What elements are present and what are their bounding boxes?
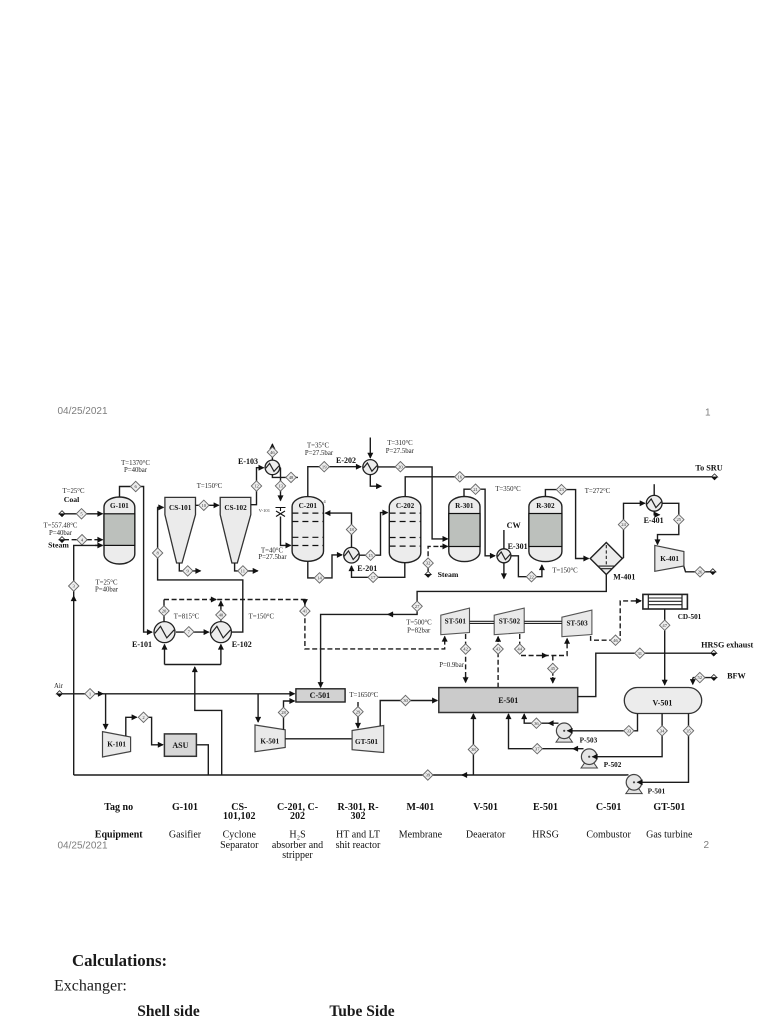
stream tag 37: [532, 744, 542, 754]
wire steam to G-101: [64, 539, 103, 541]
wire CW into E-301: [503, 530, 505, 549]
stream tag 7: [184, 627, 194, 637]
svg-text:47: 47: [662, 623, 667, 628]
stream tag 16: [455, 472, 465, 482]
svg-text:Deaerator: Deaerator: [466, 830, 506, 841]
svg-text:ST-502: ST-502: [499, 618, 521, 626]
svg-text:E-101: E-101: [132, 640, 152, 649]
wire steam arrow into R-301: [440, 545, 448, 547]
svg-text:39: 39: [426, 773, 431, 778]
wire E-202 bottom stub: [370, 475, 381, 487]
svg-text:2: 2: [704, 840, 710, 851]
H2 product terminal dot: [710, 569, 716, 575]
stream tag 5: [76, 509, 86, 519]
svg-text:P=82bar: P=82bar: [407, 628, 431, 635]
wire P-503 discharge arrow: [549, 722, 554, 724]
wire CS-102 to E-103: [251, 468, 264, 505]
wire CS-102 bottoms: [235, 563, 258, 571]
svg-text:44: 44: [517, 647, 522, 652]
wire E-102 to CS-101: [158, 507, 243, 632]
svg-text:T=350°C: T=350°C: [495, 486, 521, 493]
wire air to K-101: [105, 694, 107, 729]
wire P-502 discharge arrow: [573, 748, 578, 750]
svg-text:18: 18: [349, 527, 354, 532]
wire V-501 to P-502: [593, 714, 663, 757]
svg-text:E-202: E-202: [336, 456, 356, 465]
svg-text:15: 15: [368, 553, 373, 558]
svg-text:T=150°C: T=150°C: [552, 567, 578, 574]
svg-text:E-401: E-401: [644, 516, 664, 525]
wire BFW line: [693, 677, 711, 679]
svg-text:Air: Air: [54, 683, 64, 690]
wire ST-501 inlet arrow: [444, 637, 446, 643]
svg-text:37: 37: [535, 746, 540, 751]
wire K-501 to GT-501: [285, 738, 352, 740]
svg-text:P=40bar: P=40bar: [95, 587, 119, 594]
cyclone separator CS-102: [220, 497, 251, 563]
wire K-401 outlet: [684, 567, 710, 572]
heat exchanger E-102: [210, 622, 231, 643]
wire water main: [74, 774, 626, 776]
stream tag 17: [368, 572, 378, 582]
svg-text:BFW: BFW: [727, 672, 746, 681]
svg-text:25: 25: [677, 517, 682, 522]
svg-text:E-201: E-201: [357, 564, 377, 573]
pump P-503: [556, 723, 572, 742]
svg-text:C-501: C-501: [310, 691, 330, 700]
wire ST-501 exhaust to E-501: [465, 634, 467, 682]
svg-text:To SRU: To SRU: [695, 464, 722, 473]
wire E-501 flue to HRSG exhaust: [578, 653, 711, 696]
wire water to E-101: [164, 645, 166, 665]
stream tag 45: [548, 663, 558, 673]
gasifier G-101: [104, 497, 135, 564]
wire V-501 to P-503: [568, 714, 638, 731]
svg-text:T=150°C: T=150°C: [197, 483, 223, 490]
svg-text:P=27.5bar: P=27.5bar: [305, 450, 334, 457]
pump P-501: [626, 775, 642, 794]
stream tag 29: [353, 707, 363, 717]
stream tag 24: [618, 519, 628, 529]
svg-text:42: 42: [463, 647, 468, 652]
svg-text:28: 28: [281, 710, 286, 715]
wire ST-502 exhaust to E-501 branch: [552, 656, 554, 683]
stream tag 52: [695, 672, 705, 682]
stream tag 41: [300, 606, 310, 616]
svg-text:34: 34: [660, 728, 665, 733]
heat exchanger E-201: [344, 547, 360, 563]
stream tag 11: [238, 566, 248, 576]
stream tag 34: [657, 726, 667, 736]
svg-text:T=500°C: T=500°C: [406, 619, 432, 626]
svg-text:P=27.5bar: P=27.5bar: [386, 448, 415, 455]
wire coal to G-101: [64, 513, 103, 515]
svg-text:33: 33: [627, 728, 632, 733]
wire R-302 to M-401: [545, 490, 588, 559]
svg-text:E-501: E-501: [533, 802, 558, 813]
wire E-201 to C-202 feed: [359, 513, 387, 556]
stream tag 13: [275, 481, 285, 491]
svg-text:V-501: V-501: [652, 699, 672, 708]
svg-text:Tag no: Tag no: [104, 802, 133, 813]
svg-text:CD-501: CD-501: [678, 613, 702, 621]
steam source dot 2: [425, 571, 431, 577]
wire CW out of E-301: [503, 563, 505, 579]
svg-text:22: 22: [529, 574, 534, 579]
wire E-501 to ST-502: [497, 638, 499, 688]
equipment table row 1: [104, 802, 685, 822]
wire GT-501 exhaust to E-501: [380, 701, 437, 727]
svg-text:24: 24: [621, 522, 626, 527]
svg-text:C-501: C-501: [596, 802, 622, 813]
svg-text:T=310°C: T=310°C: [387, 440, 413, 447]
svg-text:Tube Side: Tube Side: [329, 1003, 394, 1020]
wire E-202 to R-301: [378, 467, 448, 539]
stream tag 20: [159, 606, 169, 616]
svg-text:23: 23: [559, 487, 564, 492]
svg-text:C-202: C-202: [396, 502, 415, 510]
svg-text:P=40bar: P=40bar: [49, 530, 73, 537]
svg-text:ST-501: ST-501: [445, 618, 467, 626]
svg-text:P-501: P-501: [648, 788, 666, 796]
wire air to K-501: [257, 694, 259, 722]
stream tag 8: [152, 548, 162, 558]
stream tag 48: [286, 472, 296, 482]
wire header down arrow: [304, 600, 306, 605]
svg-text:K-101: K-101: [107, 741, 126, 749]
svg-text:P=27.5bar: P=27.5bar: [258, 554, 287, 561]
svg-text:M-401: M-401: [613, 573, 635, 582]
stream tag 36: [531, 718, 541, 728]
svg-text:T=815°C: T=815°C: [174, 614, 200, 621]
BFW terminal dot: [711, 675, 717, 681]
svg-text:45: 45: [551, 666, 556, 671]
svg-text:T=25°C: T=25°C: [95, 580, 117, 587]
wire water supply riser: [195, 667, 222, 775]
wire ST-503 exhaust to CD-501: [591, 601, 641, 640]
stream tag 19: [319, 462, 329, 472]
stream tag 23: [556, 484, 566, 494]
stream tag 42: [460, 644, 470, 654]
svg-text:Exchanger:: Exchanger:: [54, 978, 127, 995]
svg-text:G-101: G-101: [172, 802, 198, 813]
coal source dot: [59, 511, 65, 517]
stream tag 6: [131, 481, 141, 491]
compressor K-401: [655, 545, 684, 571]
wire E-101/E-102 water header: [165, 664, 221, 666]
svg-text:04/25/2021: 04/25/2021: [58, 406, 108, 417]
svg-text:Membrane: Membrane: [399, 830, 443, 841]
wire E-103 stub: [272, 475, 298, 478]
svg-text:V-101: V-101: [259, 508, 271, 513]
svg-text:T=557.48°C: T=557.48°C: [44, 523, 78, 530]
svg-text:11: 11: [241, 569, 246, 574]
wire V-101 to C-201: [281, 517, 291, 546]
stream tag 15: [365, 550, 375, 560]
svg-text:E-301: E-301: [508, 542, 528, 551]
equipment table row 2: [95, 830, 693, 862]
wire E-401 top stub: [653, 484, 655, 495]
heat exchanger E-301: [497, 549, 511, 563]
stream tag 27: [412, 601, 422, 611]
wire E-103 CW out top: [271, 444, 273, 460]
wire ST-501 exhaust arrow: [465, 676, 467, 682]
stream tag 26: [695, 567, 705, 577]
wire ST-502 inlet arrow: [497, 637, 499, 642]
svg-text:E-102: E-102: [232, 640, 252, 649]
valve V-101: [276, 508, 286, 517]
wire CD-501 to V-501 arrow: [664, 679, 666, 685]
wire steam to R-301: [428, 546, 446, 571]
heat exchanger E-103: [265, 460, 280, 475]
svg-text:HRSG exhaust: HRSG exhaust: [701, 641, 753, 650]
wire water to E-102: [220, 645, 222, 665]
wire T310 feed into E-202: [369, 438, 371, 458]
svg-text:40: 40: [219, 613, 224, 618]
svg-text:04/25/2021: 04/25/2021: [58, 841, 108, 852]
stream tag 30: [400, 695, 410, 705]
wire CD-501 to V-501: [664, 609, 666, 685]
combustor C-501: [296, 689, 345, 702]
svg-text:shit reactor: shit reactor: [336, 840, 381, 851]
svg-text:Coal: Coal: [64, 495, 80, 504]
stream tag 44: [515, 644, 525, 654]
wire C-201 bottoms to E-201: [308, 555, 342, 578]
svg-text:43: 43: [496, 647, 501, 652]
svg-text:Separator: Separator: [220, 840, 259, 851]
svg-text:GT-501: GT-501: [653, 802, 685, 813]
cyclone separator CS-101: [165, 497, 196, 563]
svg-text:36: 36: [534, 721, 539, 726]
stream tag 39: [423, 770, 433, 780]
svg-text:52: 52: [698, 675, 703, 680]
stream tag 28: [278, 707, 288, 717]
svg-text:Shell side: Shell side: [137, 1003, 200, 1020]
air separation unit ASU: [164, 734, 196, 756]
wire oxygen riser arrow: [73, 596, 75, 600]
svg-text:202: 202: [290, 811, 305, 822]
wire K-101 to ASU b: [149, 717, 163, 745]
svg-text:21: 21: [473, 487, 478, 492]
wire M-401 retentate to C-501: [321, 575, 607, 688]
svg-text:101,102: 101,102: [223, 811, 256, 822]
wire CS-101 to CS-102: [196, 504, 219, 506]
wire C-202 bottoms to E-201: [352, 563, 405, 578]
compressor K-501: [255, 725, 285, 752]
svg-text:T=35°C: T=35°C: [307, 443, 330, 450]
svg-text:Equipment: Equipment: [95, 830, 143, 841]
svg-text:P=0.9bar: P=0.9bar: [439, 662, 465, 669]
wire branch arrow: [552, 677, 554, 683]
svg-text:T=150°C: T=150°C: [249, 614, 275, 621]
svg-text:13: 13: [278, 484, 283, 489]
pump P-502: [581, 749, 597, 768]
shift reactor R-302: [529, 497, 562, 562]
wire E-301 to R-302: [511, 556, 542, 577]
svg-text:31: 31: [638, 651, 643, 656]
SRU terminal dot: [711, 474, 717, 480]
absorber column C-201: [292, 497, 323, 562]
condenser CD-501: [643, 594, 688, 609]
svg-text:12: 12: [254, 484, 259, 489]
wire oxygen riser to G-101: [74, 545, 103, 775]
svg-text:19: 19: [322, 464, 327, 469]
svg-text:CW: CW: [507, 521, 522, 530]
stripper column C-202: [389, 497, 421, 563]
wire retentate arrow mid: [388, 613, 394, 615]
wire BFW into V-501: [692, 678, 694, 685]
deaerator V-501: [624, 688, 701, 714]
svg-text:48: 48: [289, 475, 294, 480]
svg-text:38: 38: [471, 747, 476, 752]
svg-text:P-503: P-503: [580, 737, 598, 745]
wire P-502 to E-501: [509, 714, 584, 749]
svg-text:G-101: G-101: [110, 502, 129, 510]
stream tag 12: [251, 481, 261, 491]
wire C-501 to GT-501: [357, 702, 359, 728]
stream tag 31: [635, 648, 645, 658]
stream tag 3: [69, 581, 79, 591]
wire water to E-501: [472, 714, 474, 775]
svg-text:V-501: V-501: [473, 802, 498, 813]
stream tag 4: [77, 535, 87, 545]
svg-text:1: 1: [705, 408, 711, 419]
svg-text:K-501: K-501: [260, 738, 279, 746]
wire P-501 discharge join: [626, 774, 629, 776]
svg-text:Steam: Steam: [48, 541, 69, 550]
svg-text:C-201: C-201: [299, 502, 318, 510]
svg-text:R-301: R-301: [455, 502, 474, 510]
wire E-101 to E-102: [176, 631, 209, 633]
heat exchanger E-401: [646, 495, 662, 511]
stream tag 22: [526, 572, 536, 582]
wire E-401 bottom stub: [654, 511, 659, 515]
svg-text:27: 27: [415, 604, 420, 609]
stream tag 35: [683, 726, 693, 736]
wire K-501 to C-501: [284, 701, 295, 730]
svg-text:20: 20: [162, 609, 167, 614]
svg-text:stripper: stripper: [282, 850, 313, 861]
membrane M-401: [590, 543, 622, 575]
stream tag 10: [199, 500, 209, 510]
wire air arrow mid: [100, 693, 103, 695]
svg-text:Calculations:: Calculations:: [72, 951, 167, 970]
HRSG E-501: [439, 688, 578, 713]
wire C-201 overhead to E-202: [308, 467, 361, 497]
turbine shaft 2: [524, 621, 562, 623]
svg-text:E-501: E-501: [498, 696, 518, 705]
steam turbine ST-503: [562, 610, 592, 637]
svg-text:302: 302: [351, 811, 366, 822]
svg-text:P-502: P-502: [604, 761, 622, 769]
wire C-202 overhead to SRU: [405, 477, 711, 497]
stream tag 47: [660, 620, 670, 630]
stream tag 1: [85, 689, 95, 699]
gas turbine GT-501: [352, 726, 384, 753]
wire steam header to ST-501: [164, 600, 445, 649]
svg-text:29: 29: [356, 709, 361, 714]
svg-text:ST-503: ST-503: [566, 620, 588, 628]
svg-text:32: 32: [426, 561, 431, 566]
svg-text:26: 26: [698, 569, 703, 574]
svg-text:R-302: R-302: [536, 502, 555, 510]
stream tag 32: [423, 558, 433, 568]
svg-text:16: 16: [458, 474, 463, 479]
svg-text:Gas turbine: Gas turbine: [646, 830, 693, 841]
stream tag 38: [468, 744, 478, 754]
heat exchanger E-101: [154, 622, 175, 643]
wire ST-502 exhaust to ST-503: [520, 634, 567, 656]
svg-text:30: 30: [403, 698, 408, 703]
wire oxygen into G-101: [95, 544, 103, 546]
svg-text:Gasifier: Gasifier: [169, 830, 202, 841]
svg-text:HRSG: HRSG: [532, 830, 559, 841]
svg-text:ASU: ASU: [172, 741, 188, 750]
svg-text:10: 10: [202, 503, 207, 508]
wire E-101 steam riser: [163, 600, 165, 622]
stream tag 46: [610, 635, 620, 645]
wire V-501 to P-501: [638, 714, 689, 783]
wire ASU oxygen down: [196, 745, 208, 775]
svg-text:41: 41: [303, 609, 308, 614]
stream tag 33: [624, 726, 634, 736]
stream tag 43: [493, 644, 503, 654]
wire R-301 to E-301: [464, 489, 495, 556]
svg-text:14: 14: [317, 576, 322, 581]
svg-text:GT-501: GT-501: [355, 738, 378, 746]
svg-text:CS-102: CS-102: [224, 504, 247, 512]
HRSG exhaust terminal dot: [711, 650, 717, 656]
steam source dot: [59, 537, 65, 543]
shift reactor R-301: [449, 497, 480, 562]
wire E-103 to V-101: [279, 467, 282, 500]
wire ST-502 exhaust arrow: [541, 655, 547, 657]
stream tag 20: [395, 462, 405, 472]
svg-text:M-401: M-401: [407, 802, 435, 813]
stream tag 46: [267, 447, 277, 457]
wire CD-501 inlet arrow: [635, 600, 641, 602]
svg-text:T=25°C: T=25°C: [62, 488, 84, 495]
wire E-401 to K-401: [658, 503, 679, 544]
stream tag 18: [346, 524, 356, 534]
svg-text:35: 35: [686, 728, 691, 733]
svg-text:T=1650°C: T=1650°C: [349, 692, 378, 699]
air source dot: [56, 691, 62, 697]
turbine shaft 1: [470, 621, 495, 623]
wire CS-101 bottoms: [179, 563, 200, 571]
svg-text:T=272°C: T=272°C: [585, 488, 611, 495]
steam turbine ST-502: [494, 608, 524, 635]
svg-text:20: 20: [398, 464, 403, 469]
wire E-201 to C-201 return: [325, 513, 351, 547]
compressor K-101: [103, 732, 131, 757]
stream tag 9: [183, 566, 193, 576]
svg-text:46: 46: [270, 450, 275, 455]
heat exchanger E-202: [363, 460, 378, 475]
svg-text:E-103: E-103: [238, 457, 258, 466]
svg-text:P=40bar: P=40bar: [124, 467, 148, 474]
stream tag 2: [138, 712, 148, 722]
steam turbine ST-501: [441, 608, 470, 635]
stream tag 40: [216, 610, 226, 620]
wire G-101 syngas to E-101: [120, 487, 153, 633]
wire header arrow: [210, 599, 216, 601]
wire P-503 to E-501: [524, 714, 558, 723]
wire water main arrow: [462, 774, 468, 776]
stream tag 21: [470, 484, 480, 494]
svg-text:17: 17: [371, 575, 376, 580]
svg-text:Steam: Steam: [438, 570, 459, 579]
